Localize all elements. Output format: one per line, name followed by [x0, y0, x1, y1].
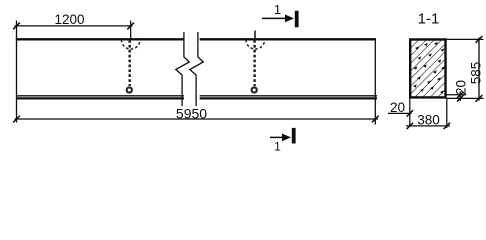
- svg-text:1: 1: [274, 2, 281, 17]
- lifting loop 1 dashed arc: [121, 40, 140, 49]
- beam bottom thin line left part: [16, 95, 184, 97]
- dimension 20 left tick: [407, 110, 413, 116]
- section body rectangle with hatch: [410, 40, 445, 98]
- dimension 5950 line: [15, 118, 379, 120]
- svg-text:1200: 1200: [54, 12, 84, 27]
- lifting loop 2 dashed arc: [246, 40, 265, 49]
- beam bottom thick line right part: [200, 97, 377, 99]
- section bottom extension line: [446, 97, 484, 99]
- dimension 585 line: [478, 38, 480, 101]
- beam top edge left part: [16, 38, 184, 40]
- lifting loop 2 center tick above beam: [254, 31, 256, 40]
- lifting loop 1 hook: [127, 87, 132, 92]
- section mark top arrowhead: [285, 15, 294, 23]
- svg-text:20: 20: [453, 80, 468, 95]
- dimension 380 line: [406, 125, 450, 127]
- section mid extension line (20 level): [446, 94, 467, 96]
- dimension 380 tick right: [444, 123, 450, 129]
- section top extension line: [446, 38, 484, 40]
- section mark top bar: [295, 11, 299, 28]
- dimension 20 left line: [388, 112, 412, 114]
- lifting loop 1 dashed anchor line: [128, 40, 131, 86]
- lifting loop 2 hook: [252, 87, 257, 92]
- beam bottom thin line right part: [200, 95, 377, 97]
- section mark bottom arrowhead: [282, 134, 291, 142]
- hatch triangles specks: [413, 42, 445, 94]
- dimension 5950 tick left: [13, 116, 20, 123]
- lifting loop 2 dashed anchor line: [253, 40, 256, 86]
- dimension 1200 extension line right: [130, 21, 132, 41]
- dimension 585 tick bottom: [476, 95, 483, 102]
- break line right: [190, 32, 204, 106]
- dimension 20 right line: [459, 92, 461, 102]
- dimension 585 tick top: [476, 36, 483, 43]
- section mark bottom arrow line: [270, 136, 285, 138]
- break line left: [176, 32, 190, 106]
- dimension 1200 line: [15, 25, 133, 27]
- dimension 20 right tick top: [457, 92, 463, 98]
- svg-text:20: 20: [390, 100, 405, 115]
- dimension 20 right tick bottom: [457, 95, 463, 101]
- section left extension line down: [409, 98, 411, 127]
- dimension 1200 tick right: [127, 23, 134, 30]
- dimension 380 tick left: [407, 123, 413, 129]
- beam bottom thick line left part: [16, 97, 184, 99]
- svg-text:380: 380: [417, 113, 440, 128]
- section right extension line down: [446, 98, 448, 128]
- beam top edge right part: [200, 38, 376, 40]
- svg-text:585: 585: [468, 62, 483, 85]
- dimension 5950 tick right: [372, 116, 379, 123]
- beam right edge / extension line: [374, 39, 376, 125]
- beam left edge / extension line: [16, 21, 18, 123]
- dimension 1200 tick left: [13, 23, 20, 30]
- svg-text:1: 1: [274, 140, 281, 154]
- svg-text:1-1: 1-1: [418, 11, 440, 28]
- svg-text:5950: 5950: [176, 105, 207, 121]
- section mark bottom bar: [292, 128, 296, 144]
- section mark top arrow line: [262, 17, 288, 19]
